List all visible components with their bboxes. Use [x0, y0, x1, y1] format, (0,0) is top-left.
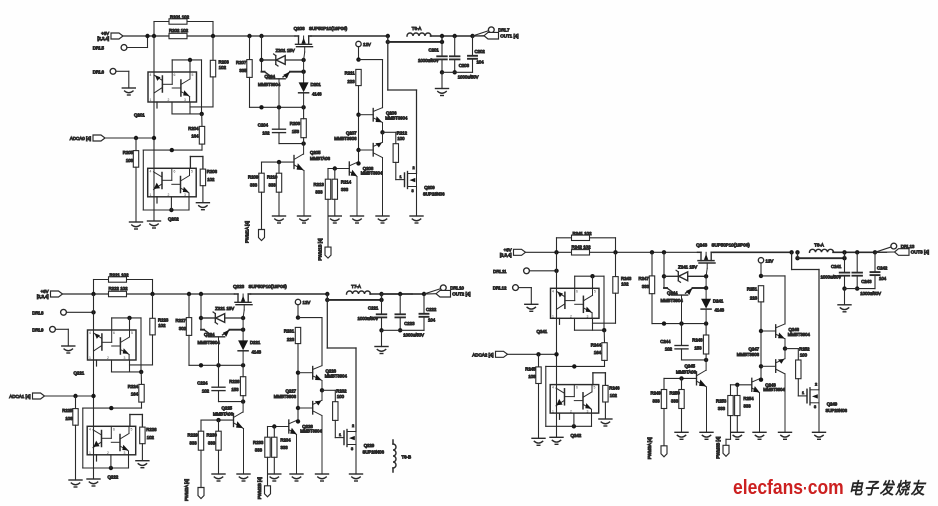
- svg-text:ADCA1 [4]: ADCA1 [4]: [9, 394, 30, 399]
- wire: [128, 455, 130, 468]
- resistor R202: [169, 33, 187, 38]
- wire Q226 collector link: [298, 317, 322, 319]
- wire driver base rail: [297, 344, 299, 422]
- svg-text:PWM3A [4]: PWM3A [4]: [647, 437, 652, 459]
- test point DRL11: [524, 268, 530, 274]
- svg-text:Q205: Q205: [310, 150, 321, 155]
- diode D241: [701, 276, 711, 323]
- svg-text:MMBT3904: MMBT3904: [300, 429, 322, 434]
- wire: [127, 279, 153, 281]
- zener: [262, 54, 304, 66]
- wire C201 top: [441, 36, 443, 56]
- junction: [379, 298, 383, 302]
- svg-text:R252: R252: [799, 347, 810, 352]
- svg-text:R224: R224: [128, 384, 139, 389]
- resistor R233: [265, 437, 270, 457]
- junction: [134, 136, 138, 140]
- connector PWM2B output: [265, 486, 271, 497]
- ground R214: [328, 216, 341, 223]
- supply 12V: [758, 258, 763, 263]
- inductor T6-B: [393, 440, 396, 472]
- wire C243 bottom: [856, 276, 858, 289]
- svg-text:DRL7: DRL7: [498, 28, 510, 33]
- ground Q227 collector: [316, 474, 329, 481]
- wire cap common: [382, 329, 425, 331]
- wire Q245 base: [664, 377, 697, 379]
- wire: [334, 169, 336, 180]
- junction: [188, 58, 192, 62]
- wire: [130, 364, 153, 366]
- svg-text:Q202: Q202: [168, 217, 179, 222]
- svg-text:6: 6: [113, 427, 115, 431]
- svg-text:333: 333: [255, 448, 263, 453]
- resistor R206: [200, 169, 205, 186]
- wire Q209 drain: [416, 90, 418, 174]
- wire R230 bottom: [218, 450, 220, 474]
- resistor R241: [572, 235, 590, 240]
- wire Q249 drain: [818, 270, 820, 390]
- junction: [199, 292, 203, 296]
- svg-text:5: 5: [191, 169, 193, 173]
- wire 12V: [358, 47, 360, 60]
- svg-text:T6-A: T6-A: [412, 26, 422, 31]
- wire R249 top: [663, 378, 665, 389]
- svg-text:PWM1A [4]: PWM1A [4]: [245, 221, 250, 243]
- wire C243 top: [856, 252, 858, 271]
- junction: [277, 160, 281, 164]
- svg-text:T8-A: T8-A: [814, 242, 824, 247]
- svg-text:PWM1B [4]: PWM1B [4]: [318, 238, 323, 260]
- svg-text:4148: 4148: [252, 349, 262, 354]
- wire C242 bottom: [874, 275, 876, 289]
- svg-text:4: 4: [89, 331, 91, 335]
- svg-text:R230: R230: [207, 432, 218, 437]
- svg-text:R225: R225: [62, 408, 73, 413]
- svg-text:MMBT3904: MMBT3904: [661, 298, 684, 303]
- test point DRL12: [513, 285, 519, 291]
- transistor Q247: [761, 349, 785, 433]
- ground R254: [731, 432, 744, 439]
- junction: [169, 208, 173, 212]
- wire: [784, 276, 786, 324]
- junction: [241, 363, 245, 367]
- wire R203 bottom: [212, 77, 214, 107]
- wire: [424, 293, 436, 295]
- junction: [554, 269, 558, 273]
- wire: [141, 415, 143, 428]
- junction: [296, 419, 300, 423]
- transistor Q226: [298, 366, 322, 391]
- wire pin stub: [592, 318, 594, 330]
- transistor Q245: [697, 360, 707, 432]
- wire R-loop right: [152, 280, 154, 295]
- resistor R247: [649, 276, 654, 294]
- wire C224 bottom: [218, 391, 220, 402]
- junction: [650, 250, 654, 254]
- ground R230: [212, 474, 225, 481]
- wire DRL7: [473, 31, 489, 36]
- junction: [759, 378, 763, 382]
- svg-text:2: 2: [168, 98, 170, 102]
- resistor R250: [679, 390, 684, 409]
- wire +6V bus: [526, 251, 698, 253]
- junction: [259, 58, 263, 62]
- junction: [356, 113, 360, 117]
- svg-text:R244: R244: [591, 342, 602, 347]
- svg-text:1000u/50V: 1000u/50V: [860, 291, 881, 296]
- wire pkg right: [140, 318, 142, 372]
- resistor R203: [210, 60, 215, 77]
- junction: [127, 316, 131, 320]
- capacitor C203: [450, 56, 460, 59]
- svg-text:6: 6: [113, 331, 115, 335]
- junction: [842, 250, 846, 254]
- wire: [187, 21, 213, 23]
- wire: [141, 444, 143, 460]
- wire Q205 base: [262, 161, 295, 163]
- junction: [379, 328, 383, 332]
- wire R204 top: [201, 114, 203, 127]
- svg-text:SUP50P10(19P06): SUP50P10(19P06): [712, 242, 751, 247]
- svg-text:R234: R234: [280, 438, 291, 443]
- svg-text:PWM2B [4]: PWM2B [4]: [257, 477, 262, 499]
- wire: [129, 318, 131, 330]
- svg-text:R241 102: R241 102: [573, 231, 593, 236]
- p-channel MOSFET Q203: [295, 36, 313, 60]
- svg-text:R231: R231: [284, 328, 295, 333]
- svg-text:102: 102: [207, 177, 215, 182]
- wire: [147, 36, 149, 48]
- transistor pair Q242: [550, 385, 599, 414]
- wire R-loop right: [212, 22, 214, 37]
- wire R230 top: [218, 420, 220, 431]
- wire: [792, 269, 819, 271]
- svg-text:R248: R248: [692, 338, 703, 343]
- svg-text:3: 3: [124, 356, 126, 360]
- wire DRL10: [424, 289, 440, 294]
- wire node B: [279, 143, 304, 145]
- resistor R248: [703, 335, 708, 354]
- wire to output connector: [473, 35, 485, 37]
- svg-text:[2,3,4]: [2,3,4]: [37, 294, 49, 299]
- svg-text:DRL10: DRL10: [450, 286, 464, 291]
- svg-text:C203: C203: [459, 63, 470, 68]
- connector PWM3A output: [661, 446, 667, 457]
- diode D221: [238, 318, 248, 365]
- svg-text:MMBT3904: MMBT3904: [385, 116, 408, 121]
- junction: [572, 424, 576, 428]
- junction: [152, 136, 156, 140]
- wire R225 top: [75, 396, 77, 409]
- resistor R232: [333, 402, 338, 421]
- wire: [273, 427, 275, 438]
- svg-text:Q201: Q201: [134, 113, 145, 118]
- svg-text:4: 4: [150, 169, 152, 173]
- svg-text:3: 3: [814, 405, 816, 409]
- svg-text:Q227: Q227: [285, 388, 296, 393]
- svg-text:6: 6: [576, 386, 578, 390]
- wire R247 top: [651, 252, 653, 276]
- ground Q209 source: [410, 216, 423, 223]
- wire: [797, 349, 799, 360]
- transistor pair Q222: [87, 426, 136, 455]
- svg-text:R208: R208: [290, 121, 301, 126]
- wire: [334, 420, 336, 437]
- wire: [67, 329, 69, 346]
- wire: [170, 197, 172, 210]
- wire: [189, 60, 191, 72]
- junction: [662, 274, 666, 278]
- svg-text:102: 102: [202, 388, 210, 393]
- svg-text:153: 153: [694, 346, 702, 351]
- wire left rail: [556, 252, 558, 437]
- capacitor C241: [840, 273, 850, 276]
- svg-text:1: 1: [802, 391, 804, 395]
- svg-text:164: 164: [594, 350, 602, 355]
- wire Q209 source: [416, 187, 418, 217]
- wire: [128, 71, 130, 88]
- wire Q248 base: [731, 384, 752, 386]
- svg-text:R207: R207: [236, 60, 247, 65]
- wire C244 top: [681, 324, 683, 345]
- wire: [844, 252, 846, 258]
- junction: [590, 274, 594, 278]
- wire DRL11: [530, 270, 557, 272]
- svg-text:3: 3: [412, 189, 414, 193]
- svg-text:103: 103: [126, 158, 134, 163]
- svg-text:DRL5: DRL5: [93, 46, 105, 51]
- svg-text:5: 5: [131, 427, 133, 431]
- ground DRL12: [525, 304, 538, 311]
- svg-text:333: 333: [250, 182, 258, 187]
- junction: [398, 328, 402, 332]
- wire pin stub: [156, 197, 158, 203]
- junction: [301, 105, 305, 109]
- svg-text:1: 1: [150, 193, 152, 197]
- wire C202 top: [472, 36, 474, 55]
- junction: [704, 274, 708, 278]
- transistor pair Q201: [148, 72, 197, 102]
- test point DRL6: [110, 68, 116, 74]
- junction: [241, 328, 245, 332]
- wire DRL13: [875, 247, 891, 252]
- svg-text:R233: R233: [253, 440, 264, 445]
- wire pkg2 left loop: [142, 150, 144, 210]
- svg-text:2: 2: [107, 356, 109, 360]
- inductor T6-A: [407, 33, 431, 36]
- junction: [247, 34, 251, 38]
- wire: [530, 288, 532, 305]
- svg-text:ADCA0 [4]: ADCA0 [4]: [70, 136, 91, 141]
- wire Q209 gate: [396, 179, 405, 181]
- node +6V bus Q223 input: [63, 293, 424, 295]
- svg-text:102: 102: [610, 393, 618, 398]
- wire switch node bus: [714, 251, 791, 253]
- wire ADCA2: [508, 353, 557, 355]
- svg-text:R201 102: R201 102: [170, 15, 190, 20]
- resistor R226: [140, 427, 145, 444]
- svg-text:D201: D201: [311, 82, 322, 87]
- capacitor C223: [395, 314, 405, 317]
- svg-text:Q229: Q229: [364, 443, 375, 448]
- wire pin stub: [129, 360, 131, 372]
- junction: [422, 292, 426, 296]
- capacitor C204: [273, 129, 286, 132]
- wire R207 top: [249, 36, 251, 60]
- wire: [188, 197, 190, 210]
- junction: [91, 310, 95, 314]
- junction: [259, 34, 263, 38]
- svg-text:OUT1 [4]: OUT1 [4]: [500, 33, 518, 38]
- wire: [705, 324, 707, 335]
- junction: [453, 70, 457, 74]
- svg-text:1: 1: [89, 356, 91, 360]
- wire: [190, 106, 213, 108]
- wire R213 to PWM1B: [327, 199, 329, 247]
- svg-text:Z241 15V: Z241 15V: [678, 265, 697, 270]
- svg-text:C201: C201: [429, 48, 440, 53]
- ground DRL9: [62, 346, 75, 353]
- capacitor C244: [675, 346, 688, 349]
- connector OUT3 output: [895, 249, 910, 256]
- svg-text:Q222: Q222: [108, 475, 119, 480]
- wire switch node bus: [311, 35, 388, 37]
- wire +6V bus: [63, 293, 235, 295]
- svg-text:R250: R250: [670, 391, 681, 396]
- svg-text:Q241: Q241: [537, 329, 548, 334]
- wire left rail: [93, 294, 95, 479]
- junction: [356, 161, 360, 165]
- ground Q245 emitter: [700, 432, 713, 439]
- watermark elecfans.com: [733, 475, 926, 500]
- resistor R245: [536, 367, 541, 384]
- junction: [259, 105, 263, 109]
- resistor R210: [276, 173, 281, 192]
- junction: [296, 315, 300, 319]
- resistor R230: [216, 431, 221, 450]
- wire R-loop left: [556, 238, 558, 253]
- junction: [386, 34, 390, 38]
- svg-text:Z221 15V: Z221 15V: [215, 306, 234, 311]
- junction: [301, 70, 305, 74]
- wire output bus ext: [382, 293, 425, 295]
- wire pkg right: [201, 60, 203, 114]
- wire R245 top: [538, 354, 540, 367]
- wire pin stub: [574, 318, 576, 330]
- wire pkg2 bottom loop: [83, 467, 129, 469]
- junction: [109, 466, 113, 470]
- wire R-loop left: [153, 22, 155, 37]
- resistor R208: [301, 119, 306, 138]
- wire R225 bottom: [75, 425, 77, 480]
- junction: [662, 250, 666, 254]
- wire R246 link: [592, 373, 594, 385]
- wire: [797, 252, 799, 258]
- wire C221 top: [381, 294, 383, 314]
- svg-text:103: 103: [528, 374, 536, 379]
- wire R205 top: [135, 138, 137, 151]
- resistor R225: [73, 409, 78, 426]
- wire R212 top: [383, 131, 396, 133]
- connector +6V input: [111, 33, 123, 39]
- wire R206 link: [189, 157, 191, 169]
- svg-text:MMBT3906: MMBT3906: [737, 352, 760, 357]
- wire left rail: [153, 36, 155, 221]
- wire Q229 gate: [335, 437, 344, 439]
- svg-text:MMBT3904: MMBT3904: [198, 340, 221, 345]
- svg-text:223: 223: [750, 296, 758, 301]
- wire C242 top: [874, 252, 876, 271]
- svg-text:Q245: Q245: [684, 364, 695, 369]
- svg-text:164: 164: [131, 392, 139, 397]
- resistor R223: [150, 318, 155, 335]
- junction: [241, 316, 245, 320]
- wire pin stub: [189, 102, 191, 114]
- wire: [730, 385, 732, 396]
- connector +6V input: [51, 291, 63, 297]
- junction: [759, 364, 763, 368]
- wire: [591, 413, 593, 426]
- wire R223 bottom: [152, 335, 154, 365]
- junction: [216, 418, 220, 422]
- wire: [387, 36, 389, 42]
- junction: [320, 388, 324, 392]
- svg-text:1000u/50V: 1000u/50V: [403, 333, 424, 338]
- transistor pair Q241: [551, 288, 600, 318]
- wire R234 bottom: [273, 457, 275, 474]
- svg-text:R212: R212: [397, 130, 408, 135]
- wire R250 bottom: [681, 409, 683, 433]
- svg-text:100: 100: [337, 394, 345, 399]
- svg-text:333: 333: [653, 399, 661, 404]
- wire C222 top: [423, 294, 425, 313]
- wire C241 bottom: [844, 276, 846, 289]
- svg-text:103: 103: [65, 416, 73, 421]
- wire pkg top: [574, 276, 576, 288]
- junction: [704, 286, 708, 290]
- wire: [395, 162, 397, 179]
- test point DRL13: [891, 243, 897, 249]
- wire R253 to PWM3B: [730, 416, 732, 440]
- svg-text:1: 1: [150, 98, 152, 102]
- wire 12V: [297, 305, 299, 318]
- svg-text:C202: C202: [475, 49, 486, 54]
- wire: [395, 132, 397, 143]
- svg-text:MMBT3906: MMBT3906: [334, 136, 357, 141]
- junction: [470, 34, 474, 38]
- resistor R224: [139, 384, 144, 402]
- wire: [303, 138, 305, 144]
- n-channel MOSFET Q229: [344, 430, 356, 447]
- svg-text:1000u/50V: 1000u/50V: [458, 75, 479, 80]
- wire zener rail: [200, 294, 202, 330]
- transistor Q206: [359, 108, 383, 133]
- svg-text:333: 333: [269, 182, 277, 187]
- svg-text:R251: R251: [747, 287, 758, 292]
- svg-text:R245: R245: [525, 367, 536, 372]
- junction: [241, 399, 245, 403]
- wire pin stub: [96, 360, 98, 366]
- svg-text:R213: R213: [314, 182, 325, 187]
- supply 12V: [295, 299, 300, 304]
- transistor Q227: [298, 390, 322, 474]
- svg-text:3: 3: [351, 447, 353, 451]
- wire output bus: [833, 251, 875, 253]
- junction: [386, 40, 390, 44]
- wire R227 top: [188, 294, 190, 318]
- junction: [783, 346, 787, 350]
- wire C224 top: [218, 365, 220, 386]
